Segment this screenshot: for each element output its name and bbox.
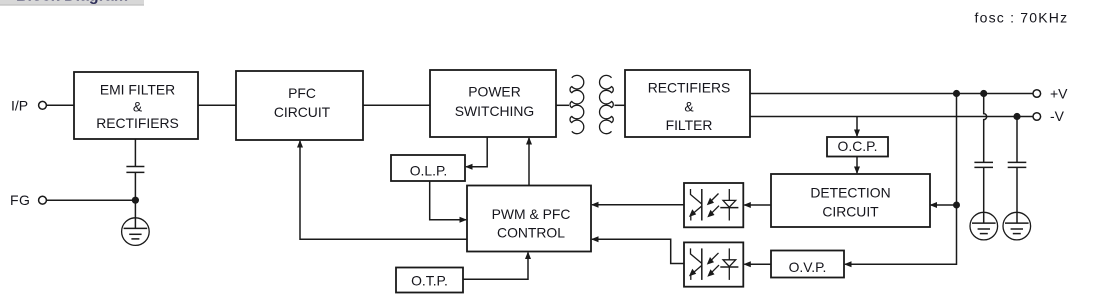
svg-text:CONTROL: CONTROL [497, 224, 565, 240]
transformer T1 secondary winding [600, 75, 614, 133]
wire sense node down to O.V.P. (arrow left) [844, 205, 957, 267]
block O.L.P. [391, 155, 465, 181]
fosc label [975, 9, 1069, 25]
block O.T.P. [396, 268, 463, 293]
wire -V rail (hop over vertical wire) [750, 116, 1033, 118]
wire POWER SWITCHING to transformer primary [556, 104, 569, 106]
title bar (cropped heading "Block Diagram") [0, 0, 144, 6]
svg-text:O.L.P.: O.L.P. [410, 163, 448, 179]
optocoupler U2 LED [720, 248, 738, 280]
earth ground (FG) [122, 218, 150, 246]
svg-text:RECTIFIERS: RECTIFIERS [648, 80, 731, 96]
wire +V rail [750, 93, 1033, 95]
block POWER SWITCHING [430, 70, 556, 137]
svg-text:EMI FILTER: EMI FILTER [100, 82, 175, 98]
wire DETECTION to opto U1 (arrow left) [743, 202, 771, 208]
block PFC CIRCUIT [236, 71, 363, 140]
wire EMI bottom to capacitor C1 [134, 139, 136, 166]
wire I/P to EMI [46, 104, 74, 106]
wire PWM to POWER SWITCHING (arrow up) [526, 137, 532, 186]
svg-text:SWITCHING: SWITCHING [455, 103, 534, 119]
svg-text:O.C.P.: O.C.P. [838, 138, 878, 154]
svg-text:RECTIFIERS: RECTIFIERS [96, 115, 179, 131]
svg-text:PWM & PFC: PWM & PFC [492, 206, 571, 222]
svg-text:-V: -V [1050, 108, 1065, 124]
wire O.V.P. to opto U2 (arrow left) [743, 261, 771, 267]
svg-text:&: & [684, 98, 694, 114]
svg-text:FILTER: FILTER [666, 117, 713, 133]
block O.C.P. [827, 137, 888, 157]
junction dot on +V rail at x=956 [953, 90, 960, 97]
junction dot on +V rail at x=984 [980, 90, 987, 97]
optocoupler U1 [684, 183, 743, 227]
optocoupler U2 phototransistor [689, 248, 702, 280]
earth ground (C3) [1003, 212, 1031, 240]
optocoupler U2 light arrows [707, 253, 719, 277]
svg-text:FG: FG [10, 192, 30, 208]
terminal -V [1033, 108, 1065, 124]
wire O.L.P. to PWM (arrow right) [430, 181, 467, 223]
svg-text:O.V.P.: O.V.P. [789, 259, 827, 275]
wire +V sense down to DETECTION (arrow left) [930, 94, 957, 209]
wire +V to output capacitor C2 [984, 94, 987, 163]
capacitor C2 [974, 162, 993, 167]
wire O.T.P. to PWM (arrow up into bottom) [463, 252, 531, 280]
svg-text:POWER: POWER [468, 83, 520, 99]
wire -V to O.C.P. (arrow down) [854, 117, 860, 138]
optocoupler U2 [684, 242, 743, 286]
svg-text:+V: +V [1050, 85, 1068, 101]
wire C3 to earth ground [1016, 168, 1018, 223]
junction dot FG node [132, 197, 139, 204]
svg-text:CIRCUIT: CIRCUIT [822, 204, 879, 220]
wire C2 to earth ground [983, 168, 985, 223]
block DETECTION CIRCUIT [771, 174, 930, 227]
block EMI FILTER & RECTIFIERS [74, 72, 198, 139]
svg-text:I/P: I/P [11, 98, 28, 114]
junction dot on -V rail at x=1017 [1013, 113, 1020, 120]
block RECTIFIERS & FILTER [625, 70, 750, 137]
block O.V.P. [771, 251, 844, 278]
wire transformer secondary to RECTIFIERS & FILTER [615, 104, 626, 106]
wire PWM feedback to PFC (arrow up into PFC bottom) [297, 140, 467, 239]
optocoupler U1 LED [720, 189, 738, 221]
optocoupler U1 phototransistor [689, 189, 702, 221]
svg-text:fosc : 70KHz: fosc : 70KHz [975, 9, 1069, 25]
terminal +V [1033, 85, 1068, 101]
wire EMI to PFC [198, 104, 236, 106]
svg-text:PFC: PFC [288, 85, 316, 101]
junction dot at DETECTION sense node [953, 202, 960, 209]
wire opto U1 to PWM (arrow left) [591, 202, 684, 208]
block PWM & PFC CONTROL [467, 186, 591, 252]
svg-text:CIRCUIT: CIRCUIT [274, 104, 331, 120]
wire O.C.P. to DETECTION CIRCUIT (arrow down) [854, 157, 860, 175]
terminal FG [10, 192, 46, 208]
wire C1 to FG junction and earth bar [134, 173, 136, 228]
wire opto U2 to PWM (arrow left) [591, 236, 684, 263]
wire POWER SWITCHING to O.L.P. (arrow left) [465, 137, 487, 170]
svg-text:O.T.P.: O.T.P. [411, 272, 448, 288]
optocoupler U1 light arrows [707, 194, 719, 218]
earth ground (C2) [970, 212, 998, 240]
wire -V to output capacitor C3 [1016, 117, 1018, 163]
wire FG to junction [46, 199, 135, 201]
transformer T1 primary winding [570, 75, 584, 133]
svg-text:DETECTION: DETECTION [810, 185, 890, 201]
terminal I/P [11, 98, 46, 114]
capacitor C1 (Y-cap) [126, 167, 144, 173]
svg-text:&: & [133, 99, 143, 115]
wire PFC to POWER SWITCHING [363, 104, 430, 106]
svg-text:Block Diagram: Block Diagram [16, 0, 128, 4]
capacitor C3 [1008, 162, 1027, 167]
